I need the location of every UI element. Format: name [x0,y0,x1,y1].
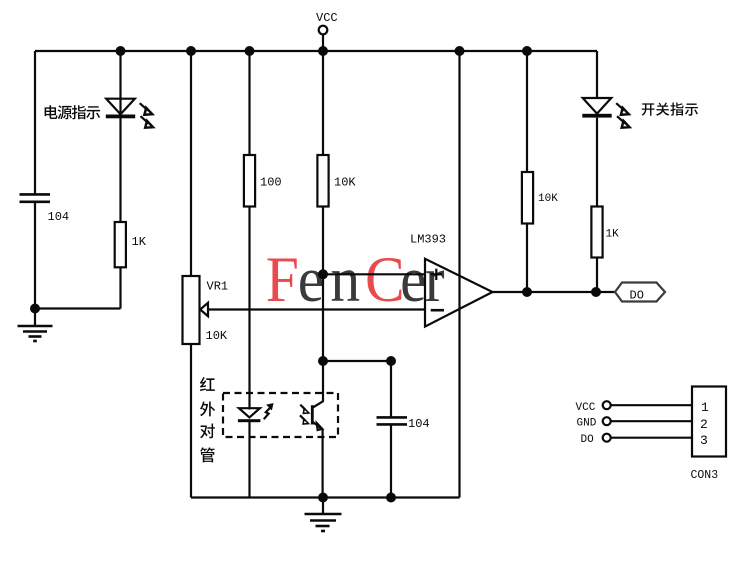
wire: left branch lower (C1 to ground node) [34,202,36,309]
logo FenCer [266,245,445,316]
wire: R4 to output node [526,224,528,293]
wire: D2 to R5 [596,118,598,207]
pin VCC lead [576,401,693,414]
wire: C2 bottom lead [390,425,392,498]
wire: R1 to ground wire [119,267,121,308]
resistor R2 100 [244,155,282,207]
potentiometer VR1 10K [183,276,229,344]
svg-text:VR1: VR1 [207,280,229,294]
phototransistor [300,361,323,498]
svg-text:FenCer: FenCer [266,245,445,316]
junction: noninverting input tap [318,269,328,279]
connector CON3 [691,387,727,483]
resistor R4 10K [522,172,558,224]
wire: bottom rail [191,496,460,498]
wire: R5 to output node [596,258,598,293]
wire: VR1 bottom to bottom rail [190,344,192,498]
wire: collector node to C2 [323,360,391,362]
label 电源指示 [45,105,100,119]
junction: bus / VR1 branch [186,46,196,56]
junction: C2 top node [386,356,396,366]
svg-text:DO: DO [630,289,644,303]
svg-text:2: 2 [700,417,708,432]
junction: output / R4 [522,287,532,297]
svg-text:CON3: CON3 [691,469,719,482]
junction: bus / VCC terminal [318,46,328,56]
svg-text:GND: GND [577,418,597,430]
wire: horizontal to left ground node [35,307,121,309]
ground (middle) [305,498,342,532]
wire: LED D1 branch (bus to R1) [119,51,121,222]
wire: comparator output [493,291,616,293]
svg-text:LM393: LM393 [410,233,446,247]
wire: inverting input from VR1 wiper [208,308,425,310]
svg-text:10K: 10K [538,193,558,205]
wire: R2 branch (bus to R2) [248,51,250,155]
junction: output / R5 [591,287,601,297]
label 红外对管 (vertical) [200,377,215,462]
wire: C2 top lead [390,361,392,417]
svg-text:104: 104 [48,210,70,224]
wire: R4 branch (bus to R4) [526,51,528,172]
ground (left) [18,309,53,342]
svg-text:3: 3 [700,433,708,448]
junction: bus / D1 branch [116,46,126,56]
junction: bus / R2 branch [245,46,255,56]
svg-text:1K: 1K [132,235,147,249]
svg-text:104: 104 [408,417,430,431]
wire: R2 to IR LED anode [248,207,250,410]
resistor R5 1K [591,207,619,258]
LED D1 (power indicator) [106,99,153,128]
svg-text:VCC: VCC [316,11,338,25]
junction: bus / R4 branch [522,46,532,56]
svg-text:1K: 1K [606,229,620,241]
power terminal VCC [316,11,338,51]
svg-text:10K: 10K [206,329,228,343]
label 开关指示 [642,103,698,116]
svg-text:DO: DO [581,434,595,446]
junction: bus / comparator drop [455,46,465,56]
wire: R3 to phototransistor collector node [322,207,324,362]
wire: LED D2 branch (bus corner to D2) [596,51,598,98]
IR LED (emitter) [238,404,273,423]
junction: collector node [318,356,328,366]
pin DO lead [581,434,693,446]
net flag DO [615,283,665,303]
junction: bottom rail / C2 [386,493,396,503]
junction: left ground node [30,304,40,314]
wire: R3 branch (bus to R3) [322,51,324,155]
op-amp U1 LM393 [410,233,493,327]
dashed box IR pair [223,393,338,437]
resistor R1 1K [115,222,147,267]
capacitor C2 104 [377,417,430,431]
resistor R3 10K [317,155,356,207]
wire: VCC bus [35,50,597,52]
wire: VR1 branch (bus to VR1) [190,51,192,276]
pin GND lead [577,417,693,429]
wire: noninverting input [323,273,425,275]
wire: IR LED cathode to bottom rail [248,422,250,498]
svg-text:100: 100 [260,176,282,190]
svg-text:10K: 10K [334,176,356,190]
svg-text:1: 1 [701,400,709,415]
LED D2 (switch indicator) [582,98,629,128]
svg-text:VCC: VCC [576,402,596,414]
capacitor C1 104 [20,194,70,224]
junction: bottom rail / emitter [318,493,328,503]
wire: left branch upper (bus to C1) [34,51,36,194]
wire: VCC drop through comparator to bottom rail [458,51,460,498]
